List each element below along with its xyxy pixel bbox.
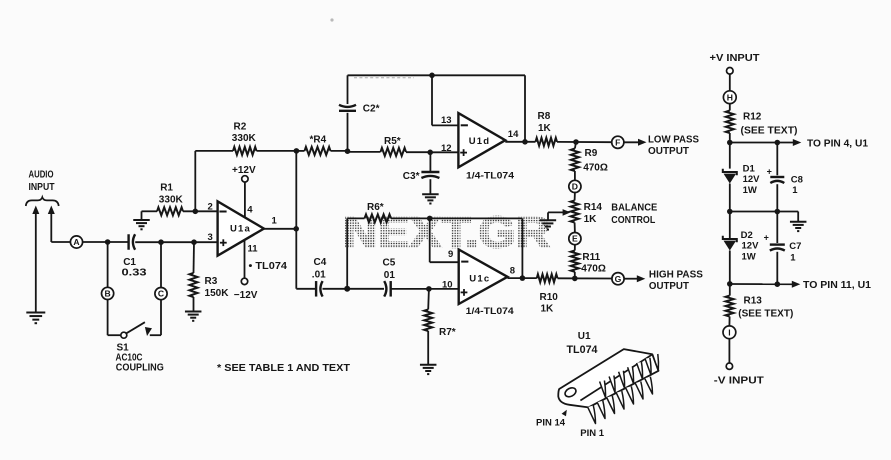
svg-text:R7*: R7*	[439, 327, 456, 338]
svg-text:R6*: R6*	[367, 202, 384, 213]
junction (A/B column)	[105, 239, 111, 245]
low pass arrow	[624, 139, 647, 146]
-V terminal	[726, 363, 732, 369]
op-amp U1c	[459, 250, 508, 305]
svg-text:470Ω: 470Ω	[583, 162, 608, 173]
junction (R7 tap)	[426, 286, 432, 292]
-12V supply	[234, 240, 258, 301]
ground (R1)	[133, 211, 150, 229]
svg-text:10: 10	[442, 279, 453, 290]
capacitor C4	[312, 257, 327, 296]
resistor R6	[347, 202, 522, 223]
input arrow left	[32, 206, 39, 313]
svg-text:R13: R13	[744, 296, 763, 307]
svg-text:R11: R11	[582, 252, 600, 263]
resistor R10	[508, 274, 612, 314]
wire to pin11 arrow	[730, 281, 801, 288]
label -V INPUT	[714, 376, 764, 387]
U1c minus	[461, 261, 468, 263]
svg-text:CONTROL: CONTROL	[611, 214, 655, 226]
svg-text:R8: R8	[538, 111, 551, 122]
junction (pin13 tap)	[429, 73, 435, 79]
junction (R8/R9)	[573, 139, 579, 145]
svg-text:A: A	[73, 237, 79, 247]
svg-text:−12V: −12V	[234, 290, 258, 301]
svg-text:U1: U1	[578, 331, 591, 342]
svg-text:470Ω: 470Ω	[581, 264, 606, 275]
svg-text:+V INPUT: +V INPUT	[710, 53, 760, 64]
svg-text:C2*: C2*	[363, 104, 380, 115]
svg-text:330K: 330K	[159, 195, 184, 206]
node H	[723, 91, 736, 104]
svg-text:R5*: R5*	[384, 136, 401, 147]
svg-text:R2: R2	[234, 121, 247, 132]
svg-text:R14: R14	[584, 202, 603, 213]
pin 2 label	[208, 201, 213, 212]
U1c plus	[461, 289, 468, 296]
svg-text:TO PIN 4, U1: TO PIN 4, U1	[807, 139, 868, 150]
pin 9 label	[448, 249, 453, 260]
brace under AUDIO INPUT	[26, 197, 59, 206]
wire node A to C1	[83, 241, 128, 243]
svg-text:1K: 1K	[538, 123, 552, 134]
svg-text:OUTPUT: OUTPUT	[649, 280, 690, 292]
zener D2	[723, 230, 759, 296]
switch S1 pole	[121, 332, 127, 338]
svg-text:PIN 1: PIN 1	[580, 428, 604, 439]
capacitor C8	[767, 143, 803, 212]
ground (rail)	[790, 222, 807, 231]
node I	[723, 326, 736, 339]
wire pin 12	[430, 151, 458, 153]
wire feedback left vertical	[194, 151, 196, 211]
label U1 TL074	[567, 331, 599, 356]
wire to C4	[296, 288, 316, 290]
svg-text:-V INPUT: -V INPUT	[714, 376, 764, 387]
wire C5 to pin 10	[391, 288, 459, 290]
svg-text:(SEE TEXT): (SEE TEXT)	[738, 309, 793, 320]
node B	[102, 287, 114, 299]
svg-text:R10: R10	[540, 292, 559, 303]
+V terminal	[727, 68, 734, 75]
svg-text:11: 11	[248, 244, 259, 255]
svg-text:D1: D1	[743, 163, 756, 174]
junction (U1c output)	[520, 275, 526, 281]
pin 3 label	[208, 232, 213, 243]
svg-text:HIGH PASS: HIGH PASS	[649, 268, 703, 280]
op-amp U1d	[458, 113, 505, 167]
junction (C7 bottom)	[775, 281, 781, 287]
svg-text:1W: 1W	[742, 251, 756, 262]
switch S1 arm	[127, 322, 145, 333]
junction (C8 bottom)	[775, 209, 781, 215]
scan artifact dashed line	[354, 77, 414, 79]
svg-text:13: 13	[441, 115, 452, 126]
resistor R11	[571, 245, 606, 279]
svg-text:150K: 150K	[205, 288, 230, 299]
label AUDIO INPUT	[29, 170, 55, 193]
wire pin 9	[430, 218, 459, 262]
resistor R7	[424, 289, 456, 365]
wire U1a output	[264, 228, 297, 230]
wire U1c feedback vertical	[521, 218, 523, 278]
svg-text:4: 4	[247, 205, 253, 216]
label S1 AC/DC COUPLING	[116, 343, 164, 374]
svg-text:330K: 330K	[232, 133, 257, 144]
wire C4-C5	[323, 288, 385, 290]
decorative watermark (not labelled further)	[330, 18, 556, 252]
wire pin 13	[432, 75, 458, 125]
svg-text:(SEE TEXT): (SEE TEXT)	[741, 125, 798, 136]
label BALANCE CONTROL	[611, 202, 657, 227]
svg-text:3: 3	[208, 232, 213, 243]
resistor R8	[536, 111, 612, 146]
junction (pin9 tap)	[427, 216, 433, 222]
svg-text:C7: C7	[789, 241, 801, 252]
svg-text:+: +	[767, 167, 772, 177]
junction (R12/D1)	[727, 140, 733, 146]
wire C2col down	[346, 218, 348, 288]
svg-text:8: 8	[510, 266, 515, 277]
svg-text:R9: R9	[585, 148, 598, 159]
svg-text:1/4-TL074: 1/4-TL074	[466, 306, 515, 317]
svg-text:U1d: U1d	[469, 136, 491, 147]
junction (R2 feedback tap on pin2)	[193, 209, 199, 215]
svg-text:LOW PASS: LOW PASS	[648, 133, 699, 145]
pin 8 label	[510, 266, 515, 277]
label PIN 1	[580, 428, 604, 439]
junction (R3 tap / pin3)	[191, 239, 197, 245]
svg-text:H: H	[727, 92, 733, 102]
svg-text:C1: C1	[123, 257, 136, 268]
input arrow right (wire to node A)	[48, 206, 71, 243]
capacitor C5	[383, 258, 396, 297]
svg-text:• TL074: • TL074	[249, 261, 288, 272]
svg-text:C3*: C3*	[403, 171, 420, 182]
U1a plus	[220, 239, 227, 246]
pin 14 label	[508, 129, 519, 140]
svg-text:2: 2	[208, 201, 213, 212]
svg-text:1: 1	[792, 185, 798, 196]
label +V INPUT	[710, 53, 760, 64]
U1d plus	[460, 149, 467, 156]
svg-text:*R4: *R4	[310, 135, 327, 146]
svg-text:D2: D2	[741, 230, 753, 241]
junction (C4/C5/R6)	[344, 286, 350, 292]
resistor R5	[348, 136, 431, 156]
wire output column	[295, 151, 297, 289]
resistor R3	[190, 242, 230, 311]
junction (R4/C2/R5)	[345, 148, 351, 154]
footnote	[217, 362, 351, 374]
svg-text:INPUT: INPUT	[29, 182, 55, 193]
resistor R1	[142, 183, 218, 216]
svg-text:1: 1	[790, 252, 796, 263]
ground (R3)	[185, 312, 202, 321]
svg-text:U1a: U1a	[230, 224, 251, 235]
svg-text:1K: 1K	[584, 214, 598, 225]
op-amp U1a	[218, 201, 264, 255]
svg-text:1W: 1W	[743, 185, 757, 196]
resistor R4	[296, 135, 347, 155]
label U1c	[469, 273, 490, 284]
pin 12 label	[441, 143, 452, 154]
label TO PIN 11, U1	[803, 280, 871, 291]
pin 10 label	[442, 279, 453, 290]
ground (input)	[26, 313, 45, 324]
label 1/4-TL074 (U1d)	[466, 170, 515, 181]
svg-text:R12: R12	[743, 112, 762, 123]
svg-text:E: E	[572, 234, 578, 244]
svg-text:I: I	[728, 327, 730, 337]
IC package U1 (DIP-14)	[558, 349, 658, 423]
PIN 14 pointer	[562, 410, 567, 416]
svg-text:F: F	[615, 137, 620, 147]
switch S1 contact arrowhead	[145, 327, 152, 336]
svg-text:C: C	[158, 289, 164, 299]
resistor R2	[195, 121, 296, 155]
svg-text:R3: R3	[205, 276, 218, 287]
label HIGH PASS OUTPUT	[649, 268, 703, 292]
svg-text:C8: C8	[791, 175, 803, 186]
node A	[70, 236, 82, 248]
label LOW PASS OUTPUT	[648, 133, 699, 157]
svg-text:9: 9	[448, 249, 453, 260]
pin 4 label	[247, 205, 253, 216]
capacitor C3	[403, 152, 440, 194]
capacitor C1	[122, 234, 148, 278]
svg-text:OUTPUT: OUTPUT	[648, 145, 690, 157]
node G	[612, 273, 624, 285]
svg-text:U1c: U1c	[469, 273, 490, 284]
label 1/4-TL074 (U1c)	[466, 306, 515, 317]
wire to node B	[107, 242, 109, 287]
svg-text:12V: 12V	[742, 241, 760, 252]
svg-text:C4: C4	[314, 257, 327, 268]
svg-text:.01: .01	[312, 270, 326, 281]
zener D1	[723, 163, 760, 239]
svg-text:C5: C5	[383, 258, 396, 269]
svg-text:+12V: +12V	[232, 165, 256, 176]
wire +V to H	[729, 74, 731, 91]
svg-text:1/4-TL074: 1/4-TL074	[466, 170, 515, 181]
node F	[612, 136, 624, 148]
wire node B to switch	[108, 300, 121, 336]
svg-text:G: G	[615, 274, 622, 284]
label PIN 14	[536, 417, 566, 428]
U1a minus	[219, 211, 226, 213]
pin 1 label	[272, 216, 278, 227]
svg-text:12: 12	[441, 143, 452, 154]
node D	[569, 180, 581, 192]
U1d minus	[461, 124, 468, 126]
ground (R14 wiper)	[540, 220, 557, 229]
svg-text:01: 01	[384, 270, 396, 281]
ground (R7)	[420, 365, 437, 374]
wire to node C	[160, 242, 162, 287]
svg-text:AUDIO: AUDIO	[29, 170, 54, 181]
label U1d	[469, 136, 491, 147]
svg-text:* SEE TABLE 1 AND TEXT: * SEE TABLE 1 AND TEXT	[217, 362, 351, 374]
label U1a	[230, 224, 251, 235]
svg-text:TO PIN 11, U1: TO PIN 11, U1	[803, 280, 871, 291]
resistor R12	[726, 104, 798, 169]
junction (D1/D2)	[727, 209, 733, 215]
wire mid rail	[730, 212, 798, 222]
R14 wiper arrow	[548, 209, 571, 220]
resistor R9	[571, 142, 608, 180]
pin 13 label	[441, 115, 452, 126]
wire to pin4 arrow	[730, 139, 802, 146]
svg-text:D: D	[572, 182, 578, 192]
capacitor C2	[339, 75, 380, 151]
wire top feedback	[348, 74, 526, 76]
svg-text:R1: R1	[160, 183, 173, 194]
node C	[155, 288, 167, 300]
wire U1d output	[505, 141, 535, 143]
high pass arrow	[624, 275, 645, 282]
wire I to -V terminal	[728, 339, 730, 364]
svg-text:14: 14	[508, 129, 519, 140]
svg-text:12V: 12V	[743, 174, 761, 185]
svg-text:1K: 1K	[541, 303, 555, 314]
wire node C to switch contact	[150, 300, 161, 336]
label TL074 (U1a)	[249, 261, 288, 272]
junction (U1d feedback)	[522, 139, 528, 145]
resistor R13	[726, 296, 794, 326]
svg-text:PIN 14: PIN 14	[536, 417, 566, 428]
junction (U1a output)	[293, 226, 299, 232]
capacitor C7	[764, 212, 802, 285]
ground (C3)	[422, 194, 439, 203]
svg-text:COUPLING: COUPLING	[116, 363, 164, 374]
+12V supply	[232, 165, 256, 218]
svg-text:1: 1	[272, 216, 278, 227]
pin 11 label	[248, 244, 259, 255]
svg-text:+: +	[764, 233, 769, 243]
svg-text:0.33: 0.33	[122, 267, 148, 278]
junction (D2/R13)	[727, 281, 733, 287]
wire C1 to U1a pin3	[135, 241, 217, 243]
label TO PIN 4, U1	[807, 139, 868, 150]
node E	[569, 233, 581, 245]
svg-text:BALANCE: BALANCE	[611, 202, 657, 214]
junction (C column)	[158, 239, 164, 245]
svg-text:TL074: TL074	[567, 344, 599, 356]
junction (R2/R4/output column)	[294, 148, 300, 154]
potentiometer R14	[571, 193, 603, 233]
junction (C8 top)	[775, 140, 781, 146]
junction (pin12/C3)	[427, 150, 433, 156]
svg-text:B: B	[104, 289, 110, 299]
wire feedback right vertical	[524, 75, 526, 142]
junction (R10/R11/G)	[572, 276, 578, 282]
